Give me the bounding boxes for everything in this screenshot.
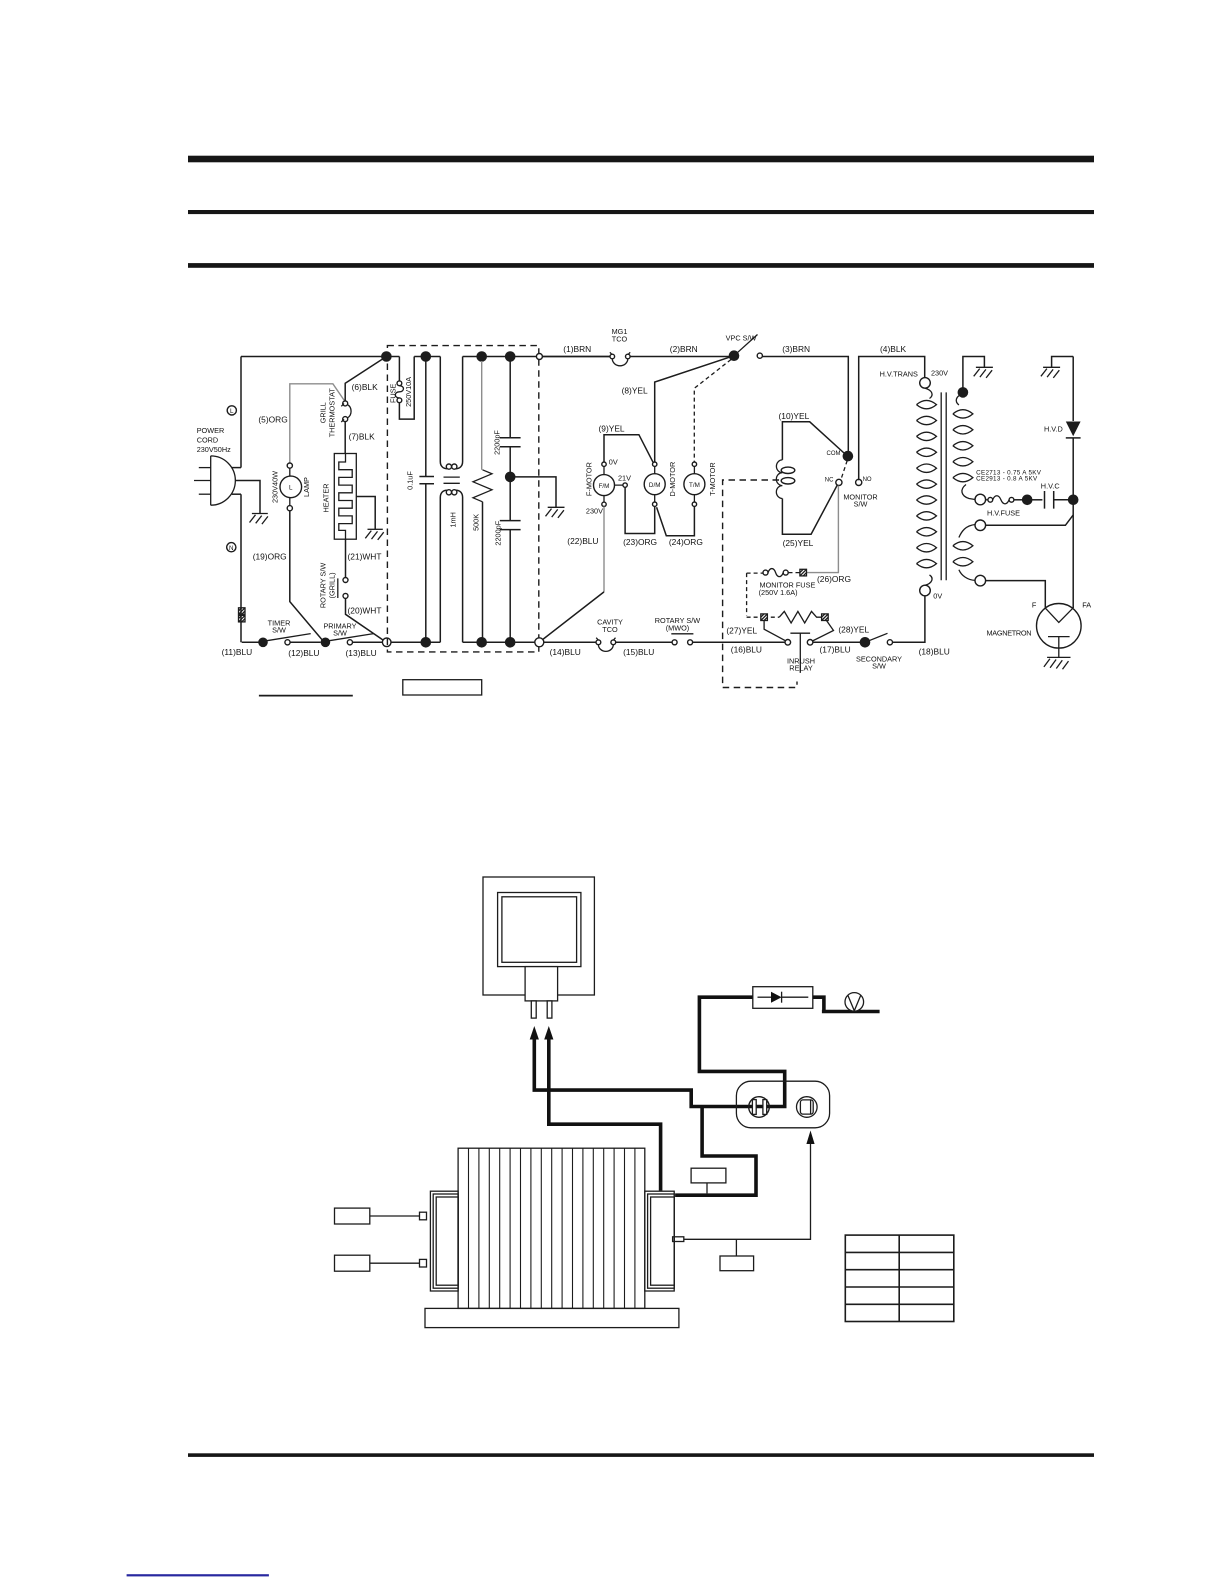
transformer right bobbin: [645, 1191, 674, 1291]
inrush terminal mark left: [761, 614, 768, 621]
svg-text:N: N: [229, 545, 234, 552]
svg-text:GRILL: GRILL: [318, 402, 327, 423]
HV trans secondary winding: [956, 394, 963, 405]
monitor switch arm: [841, 461, 848, 481]
wire (22)BLU diagonal: [543, 592, 604, 640]
header rule 3: [188, 263, 1094, 268]
lower tag box: [720, 1256, 754, 1271]
connector marks on N wire: [239, 608, 246, 615]
wire 500K bottom: [482, 502, 484, 643]
wire (25)YEL: [782, 485, 837, 534]
svg-text:2200pF: 2200pF: [494, 520, 503, 545]
fuse 250V10A: [398, 357, 400, 381]
svg-text:(13)BLU: (13)BLU: [346, 648, 377, 658]
svg-text:(21)WHT: (21)WHT: [348, 552, 382, 562]
plug prong 2: [194, 480, 211, 482]
wire (19)ORG lamp down to primary sw: [290, 511, 322, 640]
wire left L vertical: [240, 357, 242, 468]
primary terminal tag 2: [335, 1255, 370, 1271]
svg-text:(6)BLK: (6)BLK: [352, 382, 378, 392]
svg-text:(24)ORG: (24)ORG: [669, 537, 703, 547]
svg-text:F: F: [1032, 601, 1037, 610]
wire 500K top (gray): [481, 361, 483, 470]
VPC switch dot: [729, 350, 740, 361]
svg-text:POWER: POWER: [197, 426, 225, 435]
connector wire branch down to transformer: [675, 1107, 756, 1196]
svg-text:0.1uF: 0.1uF: [406, 471, 415, 490]
terminal circle 13: [382, 638, 391, 647]
thick wire diode to screw: [813, 997, 880, 1011]
transformer base plate: [425, 1308, 679, 1327]
svg-text:(9)YEL: (9)YEL: [599, 424, 625, 434]
monitor fuse terminal mark: [800, 569, 807, 576]
wire plug earth: [235, 481, 260, 514]
motor F/M: [594, 475, 615, 496]
arrowhead wire 2: [544, 1026, 553, 1040]
header rule 2: [188, 210, 1094, 214]
dashed mech link relay: [723, 480, 797, 688]
wire plug to N: [232, 493, 241, 495]
capacitor H.V.C: [1027, 499, 1042, 501]
lamp 230V40W: [280, 476, 302, 498]
heater box: [334, 454, 356, 540]
motor D/M: [644, 474, 665, 495]
junction dot 500K bottom: [476, 637, 487, 648]
SCHEMATIC: [194, 327, 1091, 696]
svg-text:(25)YEL: (25)YEL: [783, 538, 814, 548]
magnetron: [1037, 604, 1082, 649]
svg-text:(19)ORG: (19)ORG: [253, 552, 287, 562]
monitor fuse dashed leads: [747, 573, 800, 618]
monitor fuse: [763, 570, 768, 575]
header rule thick: [188, 156, 1094, 163]
HV trans 230V terminal: [920, 378, 931, 389]
label plate on wire: [691, 1168, 726, 1183]
plug prong 3: [199, 493, 211, 495]
svg-text:F/M: F/M: [599, 483, 610, 490]
svg-text:(5)ORG: (5)ORG: [258, 415, 287, 425]
secondary switch arm: [865, 633, 888, 642]
thermal cutout MG1 TCO: [610, 354, 615, 359]
svg-text:(15)BLU: (15)BLU: [623, 647, 654, 657]
wire (28)YEL square to contact: [812, 621, 833, 642]
ground HV secondary: [974, 367, 993, 378]
ground FA: [1041, 367, 1060, 378]
svg-text:230V: 230V: [586, 507, 603, 516]
transformer left bobbin: [430, 1191, 458, 1291]
svg-text:L: L: [230, 408, 234, 415]
svg-text:1mH: 1mH: [448, 512, 457, 527]
wire (1)BRN: [542, 356, 610, 358]
primary lead 2: [370, 1262, 420, 1264]
wire (15)BLU: [616, 641, 672, 643]
motor T/M: [684, 474, 705, 495]
wire bus into filter: [391, 641, 440, 643]
svg-text:S/W: S/W: [854, 500, 868, 509]
primary lug 2: [420, 1259, 427, 1267]
VPC switch arm: [734, 335, 758, 356]
svg-text:F-MOTOR: F-MOTOR: [584, 462, 593, 496]
svg-text:(10)YEL: (10)YEL: [779, 411, 810, 421]
wire (14)BLU: [544, 641, 596, 643]
svg-text:D/M: D/M: [649, 482, 661, 489]
svg-text:TCO: TCO: [602, 625, 618, 634]
wire bus 13: [353, 641, 383, 643]
svg-text:(22)BLU: (22)BLU: [567, 536, 598, 546]
terminal circle filter out top: [536, 354, 542, 360]
magnetron filter box inner frame: [498, 893, 581, 967]
svg-text:S/W: S/W: [872, 662, 886, 671]
wire (22)BLU gray vertical: [603, 507, 605, 592]
svg-text:THERMOSTAT: THERMOSTAT: [327, 388, 336, 438]
secondary switch contact: [887, 640, 892, 645]
grill thermostat: [343, 401, 348, 406]
connector left socket: [749, 1097, 770, 1118]
svg-text:TCO: TCO: [612, 335, 628, 344]
svg-text:(GRILL): (GRILL): [328, 572, 337, 598]
dashed link VPC to T-motor: [694, 360, 731, 462]
junction dot 0.1uF bottom: [421, 637, 432, 648]
svg-text:(1)BRN: (1)BRN: [563, 344, 591, 354]
node L circle: [227, 406, 236, 415]
thick wire filament 2 to transformer: [549, 1039, 661, 1191]
svg-text:MAGNETRON: MAGNETRON: [987, 629, 1032, 638]
wire (6)BLK diagonal from junction: [345, 357, 386, 401]
footer blue link line: [127, 1574, 269, 1576]
wire (2)BRN bus: [630, 356, 734, 358]
wire (20)WHT: [346, 598, 384, 640]
wire filament top to FA line: [986, 515, 1074, 525]
junction dot HVC left: [1022, 495, 1033, 506]
wire filament bottom to magnetron F: [986, 581, 1046, 608]
ground magnetron: [1044, 657, 1071, 669]
svg-text:S/W: S/W: [272, 626, 286, 635]
svg-text:LAMP: LAMP: [302, 477, 311, 497]
wire top bus mid: [414, 356, 440, 358]
timer switch dot: [258, 638, 268, 648]
legend underline: [259, 695, 353, 697]
wire (21)WHT heater to rotary grill: [345, 539, 347, 577]
wire (8)YEL from VPC to D-motor: [655, 356, 734, 462]
capacitor 2200pF upper: [509, 357, 511, 438]
lamp bottom terminal: [287, 506, 292, 511]
primary lead 1: [370, 1215, 420, 1217]
connector body: [736, 1081, 829, 1128]
secondary switch dot: [860, 637, 871, 648]
HV trans secondary top ground wire: [963, 357, 985, 393]
capacitor 0.1uF: [425, 357, 427, 477]
svg-text:T/M: T/M: [689, 482, 700, 489]
svg-text:S/W: S/W: [333, 629, 347, 638]
wire (18)BLU: [893, 596, 925, 643]
primary switch arm: [325, 634, 373, 642]
parts table: [845, 1235, 954, 1321]
ground filter tap: [546, 507, 565, 518]
magnetron filter box inner frame 2: [502, 897, 577, 963]
svg-text:H.V.TRANS: H.V.TRANS: [880, 370, 918, 379]
transformer laminations: [469, 1148, 635, 1308]
footer rule: [188, 1453, 1094, 1457]
heater element meander: [339, 454, 352, 540]
wire FA top to ground: [1052, 357, 1074, 368]
junction dot cap midpoint: [505, 472, 516, 483]
svg-text:H.V.D: H.V.D: [1044, 425, 1063, 434]
inrush contact right: [807, 640, 813, 646]
wire FA vertical: [1072, 357, 1074, 609]
wire (23)ORG: [625, 487, 655, 533]
label plate stem: [706, 1183, 708, 1194]
wire (24)ORG: [657, 506, 695, 535]
wire bus after choke bottom: [463, 641, 535, 643]
inrush contact left: [785, 640, 791, 646]
svg-text:(MWO): (MWO): [666, 624, 690, 633]
timer switch contact: [285, 640, 290, 645]
legend empty box: [403, 680, 482, 695]
svg-text:250V10A: 250V10A: [404, 377, 413, 407]
power cord plug: [211, 456, 236, 505]
choke core: [444, 477, 460, 483]
connector right socket: [797, 1097, 818, 1118]
magnetron plug housing: [525, 967, 558, 1001]
wire (5)ORG lamp to thermostat (gray): [290, 384, 345, 463]
svg-text:(7)BLK: (7)BLK: [349, 432, 375, 442]
svg-text:(3)BRN: (3)BRN: [782, 344, 810, 354]
wire cap mid tap to ground: [510, 477, 556, 507]
svg-text:H.V.FUSE: H.V.FUSE: [987, 509, 1020, 518]
ground plug: [250, 514, 268, 525]
lower tag stem: [735, 1239, 737, 1256]
choke 1mH bottom winding: [440, 490, 447, 642]
svg-text:230V40W: 230V40W: [271, 471, 280, 503]
noise filter dashed box: [387, 346, 538, 652]
primary switch contact: [347, 640, 352, 645]
junction dot top left: [381, 351, 392, 362]
junction dot HVC right: [1068, 495, 1079, 506]
svg-text:0V: 0V: [609, 458, 618, 467]
svg-text:(17)BLU: (17)BLU: [820, 645, 851, 655]
wire top bus right of choke: [463, 356, 610, 358]
junction dot 2200pF bottom: [505, 637, 516, 648]
svg-text:NC: NC: [825, 477, 834, 483]
svg-text:230V: 230V: [931, 369, 948, 378]
choke 1mH top winding: [440, 357, 447, 469]
wire left N vertical: [240, 494, 242, 642]
node N circle: [227, 543, 236, 552]
wire plug to L: [232, 467, 241, 469]
wire (3)BRN bus to monitor COM: [762, 357, 848, 452]
magnetron pin 2: [547, 1001, 552, 1018]
svg-text:21V: 21V: [618, 474, 631, 483]
diode symbol: [758, 996, 772, 998]
svg-text:CORD: CORD: [197, 436, 219, 445]
diode box: [753, 987, 813, 1009]
svg-text:(4)BLK: (4)BLK: [880, 344, 906, 354]
magnetron pin 1: [531, 1001, 536, 1018]
svg-text:T-MOTOR: T-MOTOR: [708, 462, 717, 496]
svg-text:(28)YEL: (28)YEL: [838, 625, 869, 635]
wire lamp stub bottom: [289, 498, 291, 506]
svg-text:COM: COM: [827, 451, 841, 457]
wire (7)BLK: [344, 422, 346, 454]
HV fuse terminal: [975, 494, 986, 505]
svg-text:(20)WHT: (20)WHT: [348, 606, 382, 616]
svg-text:(26)ORG: (26)ORG: [817, 574, 851, 584]
wire (26)ORG gray: [807, 486, 839, 573]
svg-text:FUSE: FUSE: [389, 383, 398, 403]
svg-text:H.V.C: H.V.C: [1041, 482, 1060, 491]
monitor switch NO contact: [856, 479, 862, 485]
timer switch arm: [263, 634, 311, 642]
inrush terminal mark right: [822, 614, 829, 621]
ground heater: [365, 529, 383, 540]
svg-text:CE2913 - 0.8 A 5KV: CE2913 - 0.8 A 5KV: [976, 475, 1038, 482]
svg-text:D-MOTOR: D-MOTOR: [668, 462, 677, 497]
svg-text:(23)ORG: (23)ORG: [623, 537, 657, 547]
junction dot 2200pF top: [505, 351, 516, 362]
diode H.V.D: [1066, 422, 1081, 437]
wire heater tap to ground: [356, 497, 375, 530]
resistor 500K: [473, 470, 492, 502]
svg-text:L: L: [289, 485, 293, 492]
svg-text:FA: FA: [1082, 601, 1091, 610]
magnetron filter box outer: [483, 877, 594, 995]
plug prong 1: [199, 467, 211, 469]
wire lamp stub top: [289, 468, 291, 476]
wire (27)YEL square to contact: [764, 621, 786, 641]
svg-text:HEATER: HEATER: [322, 483, 331, 512]
cavity TCO: [596, 640, 601, 645]
terminal circle filter out bottom: [535, 638, 544, 647]
transformer right stub lug: [673, 1237, 684, 1242]
inrush resistor: [771, 616, 779, 618]
top bus wire L: [241, 356, 399, 358]
svg-text:RELAY: RELAY: [789, 664, 813, 673]
lamp top terminal: [287, 463, 292, 468]
thin arrow line to connector: [684, 1144, 811, 1240]
monitor switch COM dot: [843, 451, 854, 462]
VPC switch contact: [757, 353, 762, 358]
monitor switch NC contact: [836, 479, 842, 485]
wire (16)BLU bus: [693, 641, 785, 643]
thick wire filament 1 to connector to diode box: [534, 997, 784, 1106]
svg-text:NO: NO: [863, 477, 872, 483]
svg-text:230V50Hz: 230V50Hz: [197, 445, 231, 454]
rotary switch MWO: [672, 640, 677, 645]
rotary switch grill: [343, 578, 348, 583]
svg-text:0V: 0V: [933, 592, 942, 601]
svg-text:(12)BLU: (12)BLU: [288, 648, 319, 658]
HV trans core: [941, 392, 946, 580]
arrowhead wire 1: [530, 1026, 539, 1040]
svg-text:2200pF: 2200pF: [493, 430, 502, 455]
svg-text:ROTARY S/W: ROTARY S/W: [319, 563, 328, 609]
primary terminal tag 1: [335, 1208, 370, 1224]
svg-text:(16)BLU: (16)BLU: [731, 645, 762, 655]
wire bus 12: [290, 641, 321, 643]
svg-text:(11)BLU: (11)BLU: [222, 647, 253, 657]
screw head: [845, 993, 864, 1012]
svg-text:VPC S/W: VPC S/W: [726, 334, 757, 343]
primary switch dot: [321, 638, 331, 648]
svg-text:(27)YEL: (27)YEL: [726, 626, 757, 636]
HV secondary top dot: [958, 387, 969, 398]
relay coil (10)YEL: [782, 422, 844, 460]
HV trans primary winding: [925, 388, 932, 398]
capacitor 2200pF lower: [500, 521, 521, 530]
transformer core: [458, 1148, 645, 1308]
svg-text:(18)BLU: (18)BLU: [919, 647, 950, 657]
svg-text:(8)YEL: (8)YEL: [622, 385, 648, 395]
HV fuse: [986, 499, 988, 501]
arrowhead thin: [806, 1131, 814, 1145]
inrush relay armature: [790, 633, 810, 673]
svg-text:(14)BLU: (14)BLU: [550, 647, 581, 657]
HV filament winding: [975, 520, 986, 531]
HV trans 0V terminal: [920, 585, 931, 596]
wire (9)YEL F-motor to D-motor: [604, 435, 653, 463]
svg-text:500K: 500K: [472, 514, 481, 531]
bottom bus left: [242, 641, 263, 643]
svg-text:(2)BRN: (2)BRN: [670, 344, 698, 354]
junction dot 500K top: [476, 351, 487, 362]
LOWER FIGURE: [335, 877, 954, 1328]
primary lug 1: [420, 1212, 427, 1220]
svg-text:(250V 1.6A): (250V 1.6A): [759, 588, 798, 597]
junction dot 0.1uF top: [421, 351, 432, 362]
wire (17)BLU bus: [813, 641, 860, 643]
wire (4)BLK from NO to HV trans 230V: [859, 357, 925, 481]
